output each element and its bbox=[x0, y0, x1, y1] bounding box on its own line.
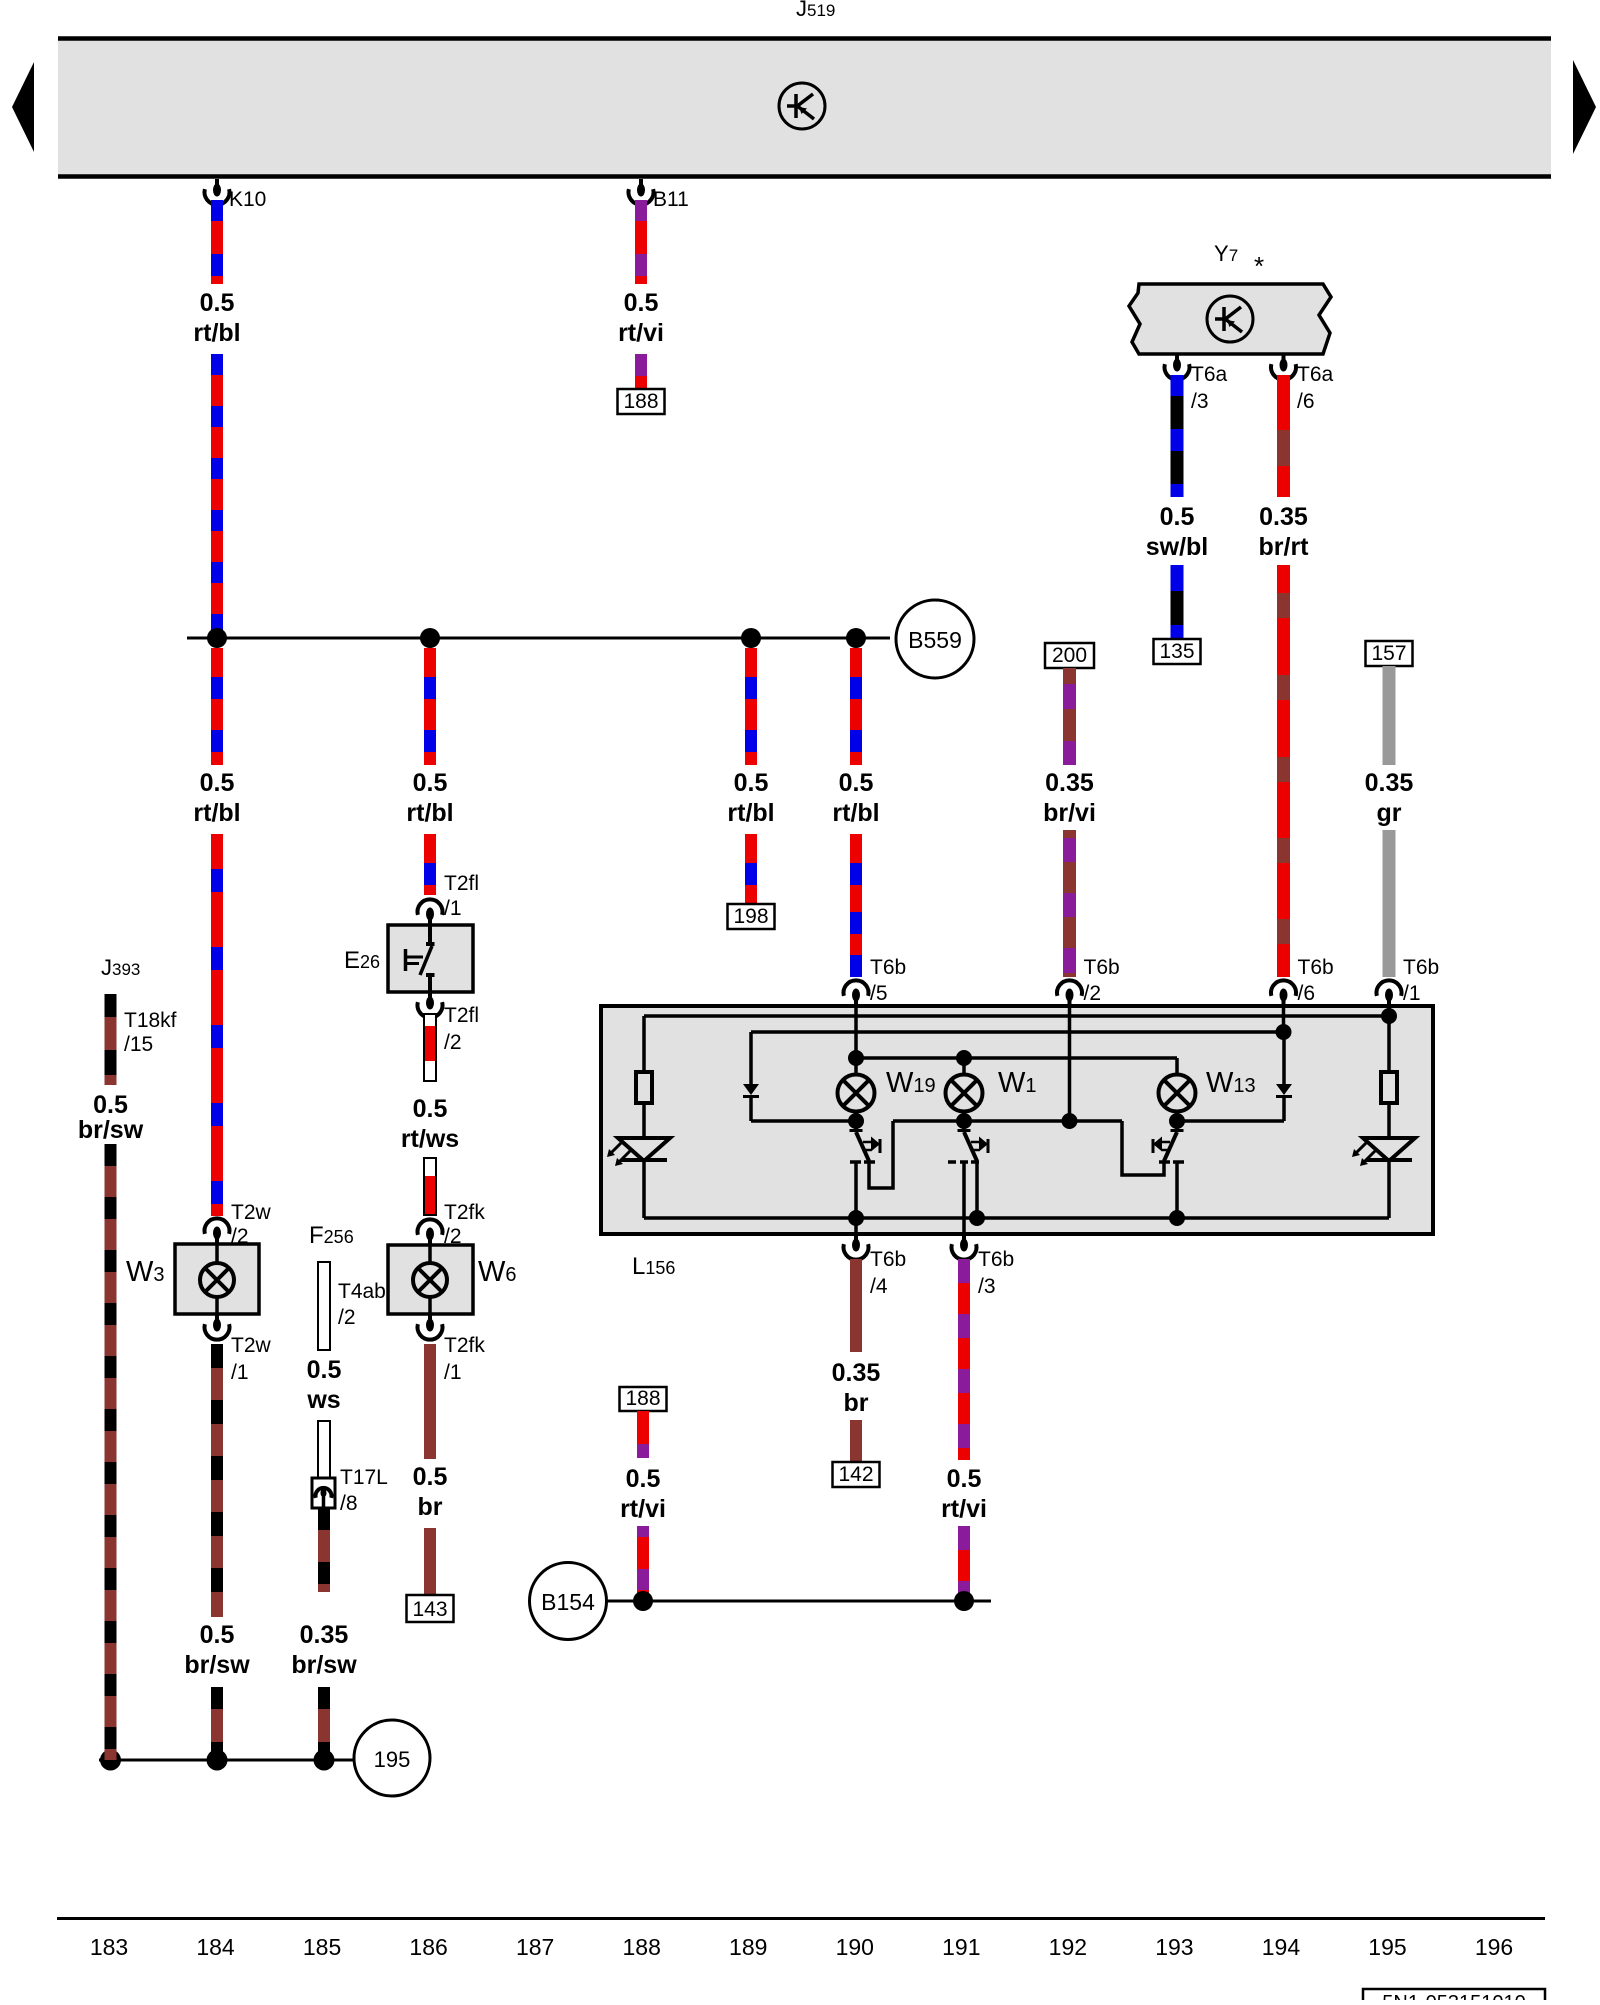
wire 0.5 br/sw to ground 195 bbox=[211, 1687, 223, 1760]
svg-text:T18kf: T18kf bbox=[124, 1009, 177, 1032]
junction below W19 bbox=[854, 1112, 858, 1122]
switch E26 box bbox=[388, 925, 473, 992]
svg-text:198: 198 bbox=[733, 905, 768, 928]
svg-text:T2w: T2w bbox=[231, 1334, 272, 1357]
svg-text:br/sw: br/sw bbox=[184, 1651, 250, 1679]
wire 0.35 gr upper bbox=[1383, 666, 1396, 765]
svg-text:T6a: T6a bbox=[1191, 363, 1228, 386]
wire resistor to LED left bbox=[642, 1103, 646, 1138]
junction dot B559 track 184 bbox=[207, 628, 227, 648]
lamp W6 box bbox=[388, 1245, 473, 1314]
track scale line bbox=[57, 1917, 1545, 1920]
wire T6b/1 into L156 bbox=[1387, 1006, 1391, 1016]
wire T6b/2 into L156 bbox=[1068, 1006, 1072, 1121]
wire node B559 horizontal bus bbox=[187, 637, 890, 640]
svg-text:/4: /4 bbox=[870, 1275, 888, 1298]
wire 0.5 br/sw long run to ground 195 bbox=[105, 1144, 117, 1760]
svg-text:200: 200 bbox=[1052, 644, 1087, 667]
svg-text:184: 184 bbox=[196, 1934, 235, 1960]
wire 0.5 rt/bl below B559 at x=751 upper bbox=[745, 648, 757, 765]
wire 0.5 rt/vi from T6b/3 bbox=[958, 1259, 970, 1460]
transistor Q1 for W19 bbox=[850, 1129, 863, 1132]
wire 0.5 rt/vi below ref 188 bbox=[637, 1411, 649, 1458]
svg-text:0.5: 0.5 bbox=[200, 1621, 235, 1649]
svg-text:br: br bbox=[418, 1493, 443, 1521]
lamp W13 bbox=[1159, 1075, 1196, 1112]
connector T6b/1 on top of L156 bbox=[1377, 980, 1402, 996]
switch E26 contacts bbox=[428, 925, 432, 942]
junction dot B559 track 189 bbox=[741, 628, 761, 648]
svg-text:rt/ws: rt/ws bbox=[401, 1125, 459, 1153]
svg-text:135: 135 bbox=[1159, 640, 1194, 663]
svg-text:br/vi: br/vi bbox=[1043, 799, 1096, 827]
svg-text:0.5: 0.5 bbox=[734, 769, 769, 797]
svg-text:191: 191 bbox=[942, 1934, 980, 1960]
junction dot B154 left bbox=[633, 1591, 653, 1611]
reference box 157 bbox=[1366, 641, 1413, 666]
svg-text:0.35: 0.35 bbox=[1045, 769, 1094, 797]
svg-text:/3: /3 bbox=[1191, 390, 1209, 413]
wire 0.5 br/sw below W3 bbox=[211, 1344, 223, 1617]
wire Q1 loop to W1 node bbox=[869, 1121, 893, 1188]
connector T2w/2 above W3 bbox=[205, 1218, 230, 1234]
reference box 135 bbox=[1154, 639, 1201, 664]
svg-text:T4ab: T4ab bbox=[338, 1280, 386, 1303]
svg-text:rt/bl: rt/bl bbox=[193, 319, 240, 347]
resistor right in L156 bbox=[1381, 1072, 1397, 1103]
svg-text:rt/bl: rt/bl bbox=[832, 799, 879, 827]
wire 0.5 rt/bl long run to W3 (track 184) bbox=[211, 834, 223, 1216]
wire 0.5 rt/bl to ref 198 (track 189) bbox=[745, 834, 757, 904]
svg-text:sw/bl: sw/bl bbox=[1146, 533, 1209, 561]
reference box 188 (top) bbox=[618, 389, 665, 414]
continuation arrow left bbox=[12, 62, 34, 152]
ground circle 195 bbox=[354, 1720, 430, 1796]
svg-text:0.5: 0.5 bbox=[93, 1091, 128, 1119]
LED right in L156 bbox=[1363, 1138, 1415, 1161]
wire node B154 horizontal bus bbox=[607, 1600, 991, 1603]
lamp W3 symbol bbox=[200, 1263, 234, 1297]
svg-text:193: 193 bbox=[1155, 1934, 1193, 1960]
lamp W19 bbox=[838, 1075, 875, 1112]
svg-text:W3: W3 bbox=[126, 1256, 165, 1288]
svg-text:ws: ws bbox=[306, 1386, 340, 1414]
reference box 198 bbox=[728, 904, 775, 929]
svg-text:E26: E26 bbox=[344, 947, 380, 974]
connector T6b/5 on top of L156 bbox=[843, 980, 868, 996]
wire 0.5 br/sw from J393 T18kf/15 bbox=[105, 994, 117, 1085]
wire 0.35 gr to L156 T6b/1 bbox=[1383, 830, 1396, 977]
wire 0.35 br to ref 142 bbox=[850, 1420, 862, 1462]
svg-text:/6: /6 bbox=[1297, 390, 1315, 413]
slip-ring symbol in Y7 bbox=[1207, 296, 1253, 342]
L156 internal bottom rail bbox=[644, 1216, 1389, 1220]
svg-text:196: 196 bbox=[1475, 1934, 1513, 1960]
wire LED right to bottom rail bbox=[1387, 1160, 1391, 1218]
svg-text:192: 192 bbox=[1049, 1934, 1087, 1960]
junction Q1 at bottom rail bbox=[848, 1210, 864, 1226]
svg-text:J519: J519 bbox=[796, 0, 835, 21]
drawing number box 5N1-053151010 bbox=[1363, 1989, 1545, 2005]
L156 internal top rail bbox=[644, 1014, 1389, 1018]
wire 0.5 rt/bl from K10 upper segment bbox=[211, 200, 223, 284]
svg-text:/8: /8 bbox=[340, 1492, 358, 1515]
svg-text:/1: /1 bbox=[444, 897, 462, 920]
L156 left branch wire bbox=[642, 1016, 646, 1072]
L156 diode D1 branch bbox=[749, 1032, 753, 1084]
wire 0.5 rt/vi to ref 188 bbox=[635, 354, 647, 389]
wire 0.5 rt/bl below B559 at x=430 upper bbox=[424, 648, 436, 765]
junction dot B154 right bbox=[954, 1591, 974, 1611]
svg-text:187: 187 bbox=[516, 1934, 554, 1960]
svg-text:T6b: T6b bbox=[1298, 956, 1334, 979]
transistor Q3 for W13 (mirrored) bbox=[1171, 1129, 1184, 1132]
wire 0.5 rt/bl to L156 T6b/5 (track 190) bbox=[850, 834, 862, 977]
wire 0.35 br from T6b/4 bbox=[850, 1259, 862, 1352]
wire 0.5 sw/bl upper bbox=[1171, 375, 1184, 497]
svg-text:0.35: 0.35 bbox=[1259, 503, 1308, 531]
wire gate feed step to Q3 bbox=[1122, 1121, 1164, 1175]
slip-ring symbol in J519 bbox=[779, 83, 825, 129]
svg-text:0.35: 0.35 bbox=[300, 1621, 349, 1649]
svg-text:br/rt: br/rt bbox=[1259, 533, 1310, 561]
reference box 200 bbox=[1045, 643, 1094, 668]
svg-text:0.5: 0.5 bbox=[626, 1465, 661, 1493]
svg-text:0.5: 0.5 bbox=[839, 769, 874, 797]
connector T2fl/1 above E26 bbox=[418, 899, 443, 915]
svg-text:T6b: T6b bbox=[978, 1248, 1014, 1271]
diode D2 branch bbox=[1282, 1032, 1286, 1084]
svg-text:194: 194 bbox=[1262, 1934, 1301, 1960]
diode D2 bbox=[1276, 1084, 1292, 1095]
terminal K10 on J519 bbox=[215, 179, 219, 186]
wire 0.35 br/rt long run to L156 T6b/6 bbox=[1277, 565, 1290, 977]
wire 0.5 br below W6 bbox=[424, 1344, 436, 1459]
connector T6b/2 on top of L156 bbox=[1057, 980, 1082, 996]
svg-text:J393: J393 bbox=[101, 955, 140, 980]
wire Q3 emitter to bottom rail bbox=[1175, 1163, 1179, 1218]
svg-text:/1: /1 bbox=[231, 1361, 249, 1384]
ground bus 195 bbox=[99, 1759, 354, 1762]
continuation arrow right bbox=[1573, 60, 1596, 154]
svg-text:br/sw: br/sw bbox=[291, 1651, 357, 1679]
connector T2w/1 below W3 bbox=[215, 1314, 219, 1321]
svg-text:W6: W6 bbox=[478, 1256, 517, 1288]
wire 0.5 rt/vi to node B154 left bbox=[637, 1526, 649, 1601]
junction top rail right bbox=[1381, 1008, 1397, 1024]
L156 right branch wire bbox=[1387, 1016, 1391, 1072]
svg-text:0.5: 0.5 bbox=[413, 1095, 448, 1123]
svg-text:Y7: Y7 bbox=[1214, 241, 1238, 266]
svg-text:189: 189 bbox=[729, 1934, 767, 1960]
junction dot ground track 183 bbox=[100, 1750, 121, 1771]
wire 0.35 br/sw below T17L bbox=[318, 1508, 330, 1592]
svg-text:T2fl: T2fl bbox=[444, 872, 479, 895]
svg-text:0.5: 0.5 bbox=[200, 769, 235, 797]
svg-text:B154: B154 bbox=[541, 1589, 595, 1615]
junction dot B559 track 190 bbox=[846, 628, 866, 648]
svg-text:/15: /15 bbox=[124, 1033, 153, 1056]
svg-text:B559: B559 bbox=[908, 627, 962, 653]
svg-text:/2: /2 bbox=[444, 1031, 462, 1054]
component Y7 (partial box) bbox=[1129, 284, 1331, 354]
connector T6b/4 below L156 bbox=[854, 1234, 858, 1241]
svg-text:195: 195 bbox=[374, 1747, 411, 1772]
wire 0.5 ws upper (F256) bbox=[318, 1262, 330, 1350]
wire 0.5 rt/ws upper bbox=[424, 1014, 436, 1081]
wire W13 node to diode D2 bbox=[1177, 1119, 1284, 1123]
connector T6b/6 on top of L156 bbox=[1271, 980, 1296, 996]
svg-text:/3: /3 bbox=[978, 1275, 996, 1298]
svg-text:T2fl: T2fl bbox=[444, 1004, 479, 1027]
svg-text:T17L: T17L bbox=[340, 1466, 388, 1489]
svg-text:rt/bl: rt/bl bbox=[406, 799, 453, 827]
junction dot ground track 184 bbox=[207, 1750, 228, 1771]
reference box 142 bbox=[833, 1462, 880, 1487]
wire 0.5 rt/bl below B559 at x=217 upper bbox=[211, 648, 223, 765]
junction T6b/6 second rail bbox=[1276, 1024, 1292, 1040]
wire 0.5 sw/bl to ref 135 bbox=[1171, 565, 1184, 639]
resistor left in L156 bbox=[636, 1072, 652, 1103]
svg-text:rt/bl: rt/bl bbox=[193, 799, 240, 827]
L156 internal second rail bbox=[751, 1030, 1284, 1034]
wire 0.5 ws to T17L bbox=[318, 1421, 330, 1478]
svg-text:0.5: 0.5 bbox=[947, 1465, 982, 1493]
connector T6a/3 on Y7 bbox=[1175, 354, 1179, 361]
wire Q2 gate column down to T6b/3 bbox=[962, 1163, 966, 1234]
lamp W6 symbol bbox=[413, 1263, 447, 1297]
svg-text:T6b: T6b bbox=[870, 956, 906, 979]
wire Q1 emitter down to T6b/4 bbox=[854, 1163, 858, 1234]
svg-text:0.5: 0.5 bbox=[307, 1356, 342, 1384]
svg-text:/5: /5 bbox=[870, 982, 888, 1005]
junction dot ground track 185 bbox=[314, 1750, 335, 1771]
svg-text:0.35: 0.35 bbox=[1365, 769, 1414, 797]
connector T2fl/2 below E26 bbox=[428, 992, 432, 999]
svg-text:/6: /6 bbox=[1298, 982, 1316, 1005]
wire T6b/5 into W19 bbox=[854, 1006, 858, 1075]
transistor Q2 for W1 bbox=[958, 1129, 971, 1132]
svg-text:143: 143 bbox=[412, 1598, 447, 1621]
wire 0.5 rt/bl from K10 down to node B559 bbox=[211, 354, 223, 632]
connector T2fk/1 below W6 bbox=[428, 1314, 432, 1321]
svg-text:/1: /1 bbox=[444, 1361, 462, 1384]
diode D1 bbox=[743, 1084, 759, 1095]
lamp W1 bbox=[946, 1075, 983, 1112]
svg-text:L156: L156 bbox=[632, 1253, 675, 1280]
svg-text:br/sw: br/sw bbox=[78, 1116, 144, 1144]
svg-text:0.5: 0.5 bbox=[413, 769, 448, 797]
wire T6b/6 into L156 bbox=[1282, 1006, 1286, 1032]
wire 0.5 rt/bl below B559 at x=856 upper bbox=[850, 648, 862, 765]
wire Q2 emitter to bottom rail bbox=[975, 1161, 979, 1218]
svg-text:*: * bbox=[1254, 251, 1264, 281]
junction below W1 bbox=[962, 1112, 966, 1122]
svg-text:188: 188 bbox=[625, 1387, 660, 1410]
lamp W3 box bbox=[175, 1244, 259, 1314]
svg-text:0.5: 0.5 bbox=[200, 289, 235, 317]
svg-text:/2: /2 bbox=[338, 1306, 356, 1329]
reference box 143 bbox=[407, 1595, 454, 1622]
svg-text:rt/vi: rt/vi bbox=[941, 1495, 987, 1523]
LED left in L156 bbox=[618, 1138, 670, 1161]
svg-text:0.5: 0.5 bbox=[413, 1463, 448, 1491]
junction dot B559 track 186 bbox=[420, 628, 440, 648]
connector T6a/6 on Y7 bbox=[1282, 354, 1286, 361]
svg-text:K10: K10 bbox=[229, 188, 266, 211]
node circle B559 bbox=[896, 600, 974, 678]
svg-text:190: 190 bbox=[836, 1934, 874, 1960]
node circle B154 bbox=[530, 1563, 607, 1640]
svg-text:142: 142 bbox=[838, 1463, 873, 1486]
control unit J519 bus bar bbox=[58, 40, 1551, 176]
svg-text:/1: /1 bbox=[1403, 982, 1421, 1005]
junction W1 top bbox=[956, 1050, 972, 1066]
svg-text:T2fk: T2fk bbox=[444, 1201, 485, 1224]
svg-text:T6b: T6b bbox=[1403, 956, 1439, 979]
svg-text:0.5: 0.5 bbox=[624, 289, 659, 317]
svg-text:T6b: T6b bbox=[1084, 956, 1120, 979]
svg-text:rt/vi: rt/vi bbox=[620, 1495, 666, 1523]
reference box 188 (bottom) bbox=[620, 1387, 667, 1411]
svg-text:188: 188 bbox=[623, 390, 658, 413]
svg-text:B11: B11 bbox=[653, 188, 689, 211]
junction below W13 bbox=[1175, 1112, 1179, 1122]
junction gate feed from T6b/2 bbox=[1062, 1113, 1078, 1129]
connector T2fk/2 above W6 bbox=[418, 1219, 443, 1235]
svg-text:T6b: T6b bbox=[870, 1248, 906, 1271]
svg-text:rt/vi: rt/vi bbox=[618, 319, 664, 347]
svg-text:rt/bl: rt/bl bbox=[727, 799, 774, 827]
svg-text:5N1-053151010: 5N1-053151010 bbox=[1382, 1992, 1525, 2000]
svg-text:0.35: 0.35 bbox=[832, 1359, 881, 1387]
wire W19 top to W13 feed bbox=[856, 1056, 1177, 1060]
wire 0.5 br to ref 143 bbox=[424, 1528, 436, 1595]
svg-text:br: br bbox=[844, 1389, 869, 1417]
connector T6b/3 below L156 bbox=[962, 1234, 966, 1241]
svg-text:188: 188 bbox=[623, 1934, 661, 1960]
junction W19 top bbox=[848, 1050, 864, 1066]
svg-text:/2: /2 bbox=[1084, 982, 1102, 1005]
wire 0.35 br/vi upper bbox=[1063, 668, 1076, 765]
svg-text:185: 185 bbox=[303, 1934, 341, 1960]
svg-text:T2fk: T2fk bbox=[444, 1334, 485, 1357]
svg-text:183: 183 bbox=[90, 1934, 128, 1960]
wire 0.35 br/rt upper bbox=[1277, 375, 1290, 497]
wire 0.5 rt/bl to E26 (track 186) bbox=[424, 834, 436, 895]
wire 0.5 rt/vi to node B154 bbox=[958, 1526, 970, 1601]
svg-text:195: 195 bbox=[1368, 1934, 1406, 1960]
wire 0.5 rt/vi from B11 bbox=[635, 200, 647, 284]
connector T17L/8 bbox=[312, 1478, 335, 1508]
wire 0.5 rt/ws to W6 bbox=[424, 1158, 436, 1215]
terminal B11 on J519 bbox=[639, 179, 643, 186]
wire 0.35 br/vi to L156 T6b/2 bbox=[1063, 830, 1076, 977]
lamp unit L156 box bbox=[601, 1006, 1433, 1234]
wire LED left to bottom rail bbox=[642, 1160, 646, 1218]
svg-text:T2w: T2w bbox=[231, 1201, 272, 1224]
svg-text:186: 186 bbox=[409, 1934, 447, 1960]
wire 0.35 br/sw to ground 195 (track 185) bbox=[318, 1687, 330, 1760]
svg-text:T6a: T6a bbox=[1297, 363, 1334, 386]
svg-text:gr: gr bbox=[1377, 799, 1402, 827]
svg-text:F256: F256 bbox=[309, 1222, 354, 1249]
svg-text:0.5: 0.5 bbox=[1160, 503, 1195, 531]
svg-text:157: 157 bbox=[1371, 642, 1406, 665]
